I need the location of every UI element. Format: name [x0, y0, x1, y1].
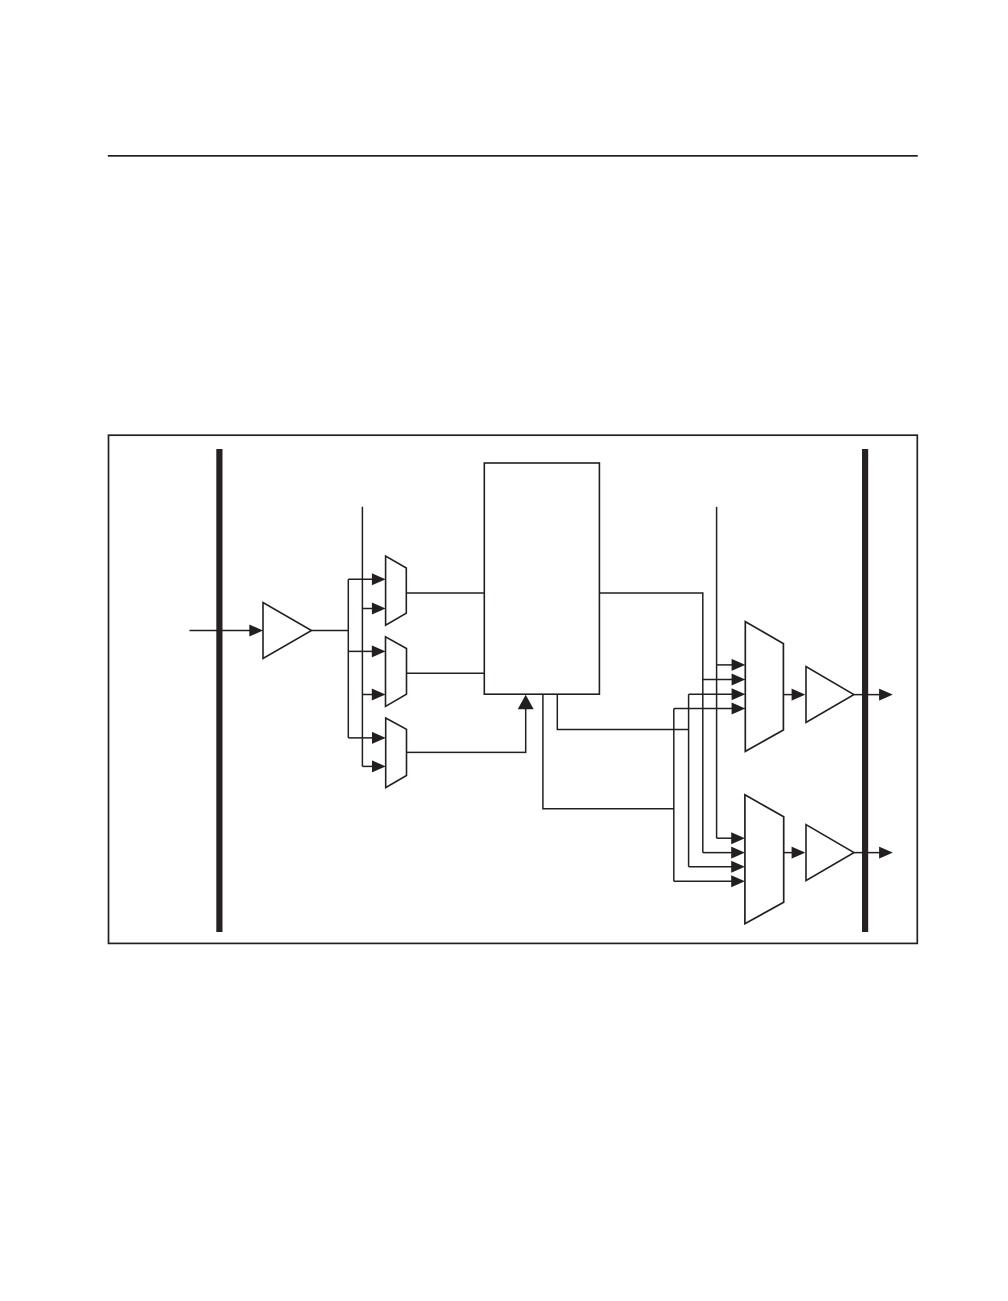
- mux M3: [386, 718, 407, 788]
- output buffer U3: [806, 825, 854, 881]
- wire: mux M5 output: [784, 852, 792, 854]
- output buffer U2: [806, 667, 854, 723]
- wire: register bottom pin 1 routed right (to V5): [543, 694, 674, 809]
- wire: mux M4 output: [783, 694, 792, 696]
- arrowhead M3 input 1: [372, 732, 386, 744]
- arrowhead M2 input 2: [372, 689, 386, 701]
- mux M5: [745, 795, 784, 924]
- arrowhead M4 input 3: [732, 688, 746, 700]
- arrowhead into output buffer U3: [792, 847, 806, 859]
- wire: mux M3 output up into register block bottom: [407, 709, 526, 753]
- wire: vertical net V3 (from top, right side): [716, 507, 718, 838]
- output bus (right thick bar): [862, 449, 868, 932]
- mux M4: [745, 622, 783, 752]
- wire: V2 to mux M1 input 2: [362, 608, 372, 610]
- wire: V2 to mux M3 input 2: [362, 765, 372, 767]
- arrowhead into input buffer: [249, 625, 263, 637]
- arrowhead M4 input 2: [732, 674, 746, 686]
- wire: register right output, down right side (V4): [599, 593, 702, 853]
- arrowhead U3 output: [879, 847, 893, 859]
- arrowhead into register bottom: [518, 695, 534, 710]
- wire: U3 output across output bus: [854, 852, 880, 854]
- mux M2: [386, 637, 407, 707]
- wire: V5 top to mux M4 input 4: [674, 708, 732, 710]
- arrowhead into output buffer U2: [792, 689, 806, 701]
- arrowhead M1 input 1: [372, 573, 386, 585]
- arrowhead M4 input 1: [732, 659, 746, 671]
- wire: register bottom pin 2 routed right (to V6): [557, 694, 688, 729]
- wire: V3 bottom to mux M5 input 1: [717, 837, 732, 839]
- wire: V1 to mux M2 input 1: [348, 650, 372, 652]
- wire: mux M2 output to register block: [407, 672, 485, 674]
- wire: V6 top to mux M4 input 3: [689, 693, 732, 695]
- top rule: [108, 155, 918, 157]
- arrowhead M2 input 1: [372, 645, 386, 657]
- wire: V5 bottom to mux M5 input 4: [674, 880, 732, 882]
- internal data bus (left thick bar): [216, 449, 222, 932]
- arrowhead M1 input 2: [372, 603, 386, 615]
- arrowhead M5 input 3: [731, 861, 745, 873]
- wire: U2 output across output bus: [854, 694, 880, 696]
- wire: pad input to input buffer: [190, 630, 252, 632]
- wire: vertical branch V1 (buffer output distribution): [347, 579, 349, 738]
- wire: V2 to mux M2 input 2: [362, 694, 372, 696]
- wire: buffer output to branch node: [312, 630, 350, 632]
- wire: vertical V6: [688, 694, 690, 867]
- wire: mux M1 output to register block: [406, 592, 484, 594]
- arrowhead M5 input 2: [731, 847, 745, 859]
- wire: V4 tap to mux M4 input 2: [703, 679, 732, 681]
- wire: V1 to mux M3 input 1: [348, 737, 372, 739]
- wire: V1 to mux M1 input 1: [348, 578, 372, 580]
- figure frame: [109, 435, 918, 943]
- wire: V6 bottom to mux M5 input 3: [689, 866, 732, 868]
- arrowhead M3 input 2: [372, 760, 386, 772]
- arrowhead M5 input 1: [731, 832, 745, 844]
- register block: [484, 463, 599, 694]
- arrowhead M4 input 4: [732, 703, 746, 715]
- arrowhead U2 output: [879, 689, 893, 701]
- input buffer U1: [263, 603, 312, 659]
- mux M1: [386, 556, 407, 625]
- arrowhead M5 input 4: [731, 875, 745, 887]
- wire: vertical V5: [673, 709, 675, 882]
- wire: vertical net V2 (from top, select line): [361, 507, 363, 767]
- wire: V3 tap to mux M4 input 1: [717, 664, 732, 666]
- wire: V4 bottom to mux M5 input 2: [703, 852, 732, 854]
